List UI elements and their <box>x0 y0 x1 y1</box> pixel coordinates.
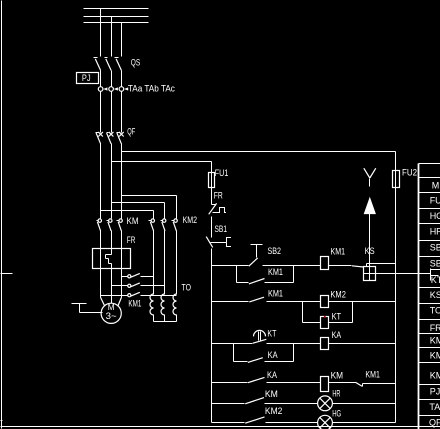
svg-text:TO: TO <box>430 306 440 316</box>
svg-text:3~: 3~ <box>106 311 117 321</box>
svg-text:QS: QS <box>131 58 141 68</box>
svg-text:KA: KA <box>332 330 342 340</box>
svg-text:HG: HG <box>430 211 440 221</box>
svg-text:KS: KS <box>430 290 440 300</box>
svg-text:FU2: FU2 <box>402 168 417 178</box>
svg-text:KM: KM <box>127 216 139 226</box>
svg-text:KM1: KM1 <box>128 299 141 309</box>
svg-text:KT: KT <box>332 311 342 321</box>
svg-text:KM1: KM1 <box>331 246 346 256</box>
svg-text:KM: KM <box>430 335 440 345</box>
svg-text:KA: KA <box>267 370 277 380</box>
svg-text:KS: KS <box>365 246 375 256</box>
svg-text:QF: QF <box>127 127 135 137</box>
svg-text:KT: KT <box>431 275 440 285</box>
svg-text:KM: KM <box>265 389 278 399</box>
svg-text:KM: KM <box>430 370 440 380</box>
svg-text:KM1: KM1 <box>365 370 380 380</box>
svg-text:FU1: FU1 <box>215 168 229 178</box>
svg-text:KM2: KM2 <box>330 289 346 299</box>
svg-text:FR: FR <box>214 191 223 201</box>
svg-text:HR: HR <box>332 388 340 398</box>
svg-text:M: M <box>432 180 440 190</box>
svg-text:KT: KT <box>267 329 276 339</box>
svg-text:KM2: KM2 <box>183 215 198 225</box>
svg-text:KM: KM <box>331 370 344 380</box>
svg-text:KM2: KM2 <box>265 406 283 416</box>
svg-text:QF: QF <box>429 418 440 428</box>
svg-text:TA: TA <box>429 402 440 412</box>
svg-text:KM1: KM1 <box>268 267 283 277</box>
svg-text:KA: KA <box>268 350 278 360</box>
svg-text:FU: FU <box>430 195 440 205</box>
svg-text:PJ: PJ <box>430 387 440 397</box>
svg-text:KM1: KM1 <box>268 288 283 298</box>
svg-text:SB2: SB2 <box>268 246 282 256</box>
svg-text:HG: HG <box>332 409 341 419</box>
svg-text:SB: SB <box>430 258 440 268</box>
svg-text:FR: FR <box>127 235 136 245</box>
svg-text:HR: HR <box>430 226 440 236</box>
svg-text:PJ: PJ <box>82 73 91 83</box>
svg-text:FR: FR <box>430 323 440 333</box>
svg-text:SB1: SB1 <box>215 224 228 234</box>
svg-text:TO: TO <box>182 283 192 293</box>
svg-text:SB: SB <box>430 242 440 252</box>
svg-text:KM: KM <box>430 350 440 360</box>
svg-text:TAa TAb TAc: TAa TAb TAc <box>128 84 175 94</box>
